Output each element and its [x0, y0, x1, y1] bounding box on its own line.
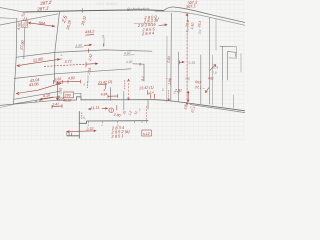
dimension 2830-16 arrow [159, 24, 167, 26]
svg-text:0,35: 0,35 [189, 61, 196, 65]
boundary vertical x171 [170, 13, 173, 100]
red arrowhead x128 bottom [128, 98, 130, 100]
svg-text:46,02: 46,02 [63, 98, 72, 102]
red dashed vertical x128 [128, 80, 130, 101]
svg-text:1,83: 1,83 [58, 87, 63, 94]
pencil 480 underline [75, 46, 84, 49]
house bottom rect bottom leg [67, 135, 80, 137]
boundary vertical x201 [200, 55, 202, 104]
fork line top-left [0, 14, 58, 25]
svg-text:4,82: 4,82 [68, 76, 75, 81]
red tick x116 [116, 105, 118, 110]
tick on 434 line [103, 38, 105, 47]
red updown arrow x188 [187, 91, 189, 101]
svg-text:2,32: 2,32 [85, 127, 93, 132]
svg-text:2 8 4 4: 2 8 4 4 [141, 30, 155, 36]
red cross x187 road [186, 14, 188, 17]
wall tick marks on house edge [88, 121, 142, 123]
building top-right horizontal [220, 45, 237, 47]
dimension 232 line with arrows [67, 130, 96, 133]
svg-text:4,1: 4,1 [185, 28, 190, 33]
svg-text:6,: 6, [83, 116, 86, 120]
svg-text:4,82: 4,82 [124, 51, 131, 55]
red square hatch [22, 21, 28, 27]
dimension 1188 arrowheads [17, 59, 60, 67]
house bottom rect right wall [147, 101, 149, 110]
red underline 434 [86, 33, 95, 36]
parcel line B1 [16, 50, 152, 57]
left boundary edge [14, 19, 17, 104]
dimension 410 arrowheads [40, 98, 43, 100]
svg-text:Bahnhofstr.: Bahnhofstr. [127, 7, 150, 12]
red tick on M1 x88 [88, 49, 90, 53]
dimension 4304 line [17, 83, 62, 93]
building lower wall x222 extension [222, 80, 224, 106]
red tick x103 [102, 44, 104, 47]
svg-text:282: 282 [207, 76, 214, 81]
red vertical dimension x57 [56, 82, 58, 100]
red arrow down junction 206 [206, 88, 210, 93]
dimension 372 dashed line [44, 64, 86, 66]
svg-text:4,84: 4,84 [101, 92, 108, 97]
svg-text:4,82: 4,82 [126, 60, 133, 64]
red tick under 2342 [147, 90, 149, 94]
svg-text:2,4: 2,4 [149, 91, 155, 95]
svg-text:4,80: 4,80 [75, 43, 82, 48]
red arrowhead x128 top [128, 79, 130, 81]
middle vertical x110 [110, 88, 112, 101]
boundary vertical x178 [178, 52, 180, 101]
building top-right wall b [227, 52, 229, 81]
grey pencil texts [57, 2, 218, 127]
svg-text:2,42: 2,42 [51, 102, 59, 107]
road A bend to right slope upper [164, 7, 246, 23]
vertical x122 [123, 92, 125, 110]
vertical V2 below square [24, 28, 25, 60]
road B secondary short line [0, 104, 15, 107]
red dots boundary pair [166, 78, 171, 79]
dimension 372 arrow extension [86, 62, 98, 67]
road A baseline [23, 10, 164, 12]
dimension 1188 line [17, 59, 62, 66]
svg-text:3,72: 3,72 [64, 59, 73, 64]
svg-text:mp: mp [186, 76, 191, 80]
boundary vertical x216 [215, 19, 217, 50]
house bottom rect left wall [78, 112, 80, 139]
house bottom rect top edge [79, 121, 148, 124]
red tick step corner [139, 63, 141, 66]
building top-right corner wall d [229, 47, 237, 58]
svg-text:7,9: 7,9 [212, 71, 217, 75]
house bottom left tick [66, 131, 68, 136]
red dashed vertical x168 lower [168, 90, 170, 101]
pencil line under 2833 [134, 22, 152, 25]
dimension 4304 arrowheads [17, 83, 62, 95]
svg-text:2,9: 2,9 [213, 66, 219, 70]
middle corner x80 [75, 93, 81, 100]
red dashes x82 [81, 113, 83, 119]
red box s12 [142, 130, 152, 136]
building lower wall x233 [233, 95, 235, 108]
small square S1 outline [22, 21, 28, 28]
road B start lines bottom-left [0, 100, 57, 105]
building top-right horizontal b [228, 52, 237, 57]
short flat line top-left [0, 17, 17, 20]
svg-text:x: x [183, 104, 186, 108]
parcel line B3 [14, 91, 60, 99]
svg-text:3,9: 3,9 [198, 29, 203, 34]
svg-text:Gem. Waldau: Gem. Waldau [96, 2, 117, 6]
road A upper edge left diagonal [0, 8, 23, 13]
dimension 884 line [29, 23, 55, 27]
building top-right wall c [240, 54, 242, 73]
svg-text:2 8 5 1: 2 8 5 1 [110, 133, 123, 139]
svg-text:11,11: 11,11 [90, 106, 99, 110]
red circled 1 [109, 108, 114, 113]
svg-text:1: 1 [110, 109, 112, 113]
svg-text:3,82: 3,82 [54, 77, 61, 82]
dimension 884 arrowheads [29, 22, 55, 27]
svg-text:884: 884 [38, 21, 45, 26]
dimension 1111 arrow [89, 108, 108, 110]
road B main bottom boundary [57, 97, 245, 111]
baseline tick x85 [82, 9, 84, 13]
red tie marks above square [24, 17, 27, 21]
parcel line B2 [14, 69, 131, 79]
road B lower right edge [190, 105, 245, 113]
svg-text:260: 260 [64, 94, 71, 98]
boundary vertical pair x167 [166, 36, 168, 102]
svg-text:1: 1 [162, 88, 164, 92]
dimension 242 line [52, 104, 62, 108]
boundary faint x187 [186, 22, 188, 103]
building top-right wall a [222, 47, 224, 80]
red dots on B4 [36, 100, 41, 103]
paper background [0, 0, 245, 141]
long vertical V1 [55, 12, 60, 81]
red arrowhead dashed x187 bottom [186, 103, 188, 105]
svg-text:a.: a. [61, 53, 64, 57]
red arrow after 480 [84, 44, 92, 46]
red tick x87 [87, 82, 89, 89]
step wall 482 [133, 64, 144, 81]
red dashed vertical x187 [186, 30, 188, 105]
boundary vertical x212 [212, 55, 214, 105]
red dashed vertical x148 [145, 106, 147, 123]
pencil 482 underline [124, 54, 135, 56]
svg-text:8,1: 8,1 [141, 76, 146, 81]
red box around E [64, 92, 74, 98]
red arrow right x179 [180, 61, 185, 65]
grey vertical x88 [87, 75, 89, 83]
red ticks bottom leg [69, 133, 72, 136]
red underline 2342 first [98, 84, 118, 98]
dimension 382-482 line [53, 80, 80, 84]
svg-text:s.12: s.12 [143, 132, 150, 136]
red arrowhead dashed x168 bottom [168, 99, 170, 101]
red dashes x124.8 [124, 80, 126, 89]
red texts [17, 0, 214, 139]
road A right slope lower edge [155, 11, 245, 25]
boundary vertical x209 [209, 18, 211, 105]
svg-text:2,70: 2,70 [172, 90, 180, 94]
svg-text:x: x [189, 106, 192, 110]
boundary vertical x187 top [186, 14, 188, 22]
red arrow up-right x210 [210, 65, 216, 71]
parcel line B4 [13, 96, 60, 104]
dimension 410 line [40, 97, 54, 99]
red ticks road B x150 [151, 94, 155, 99]
pencil V mark [156, 18, 159, 22]
